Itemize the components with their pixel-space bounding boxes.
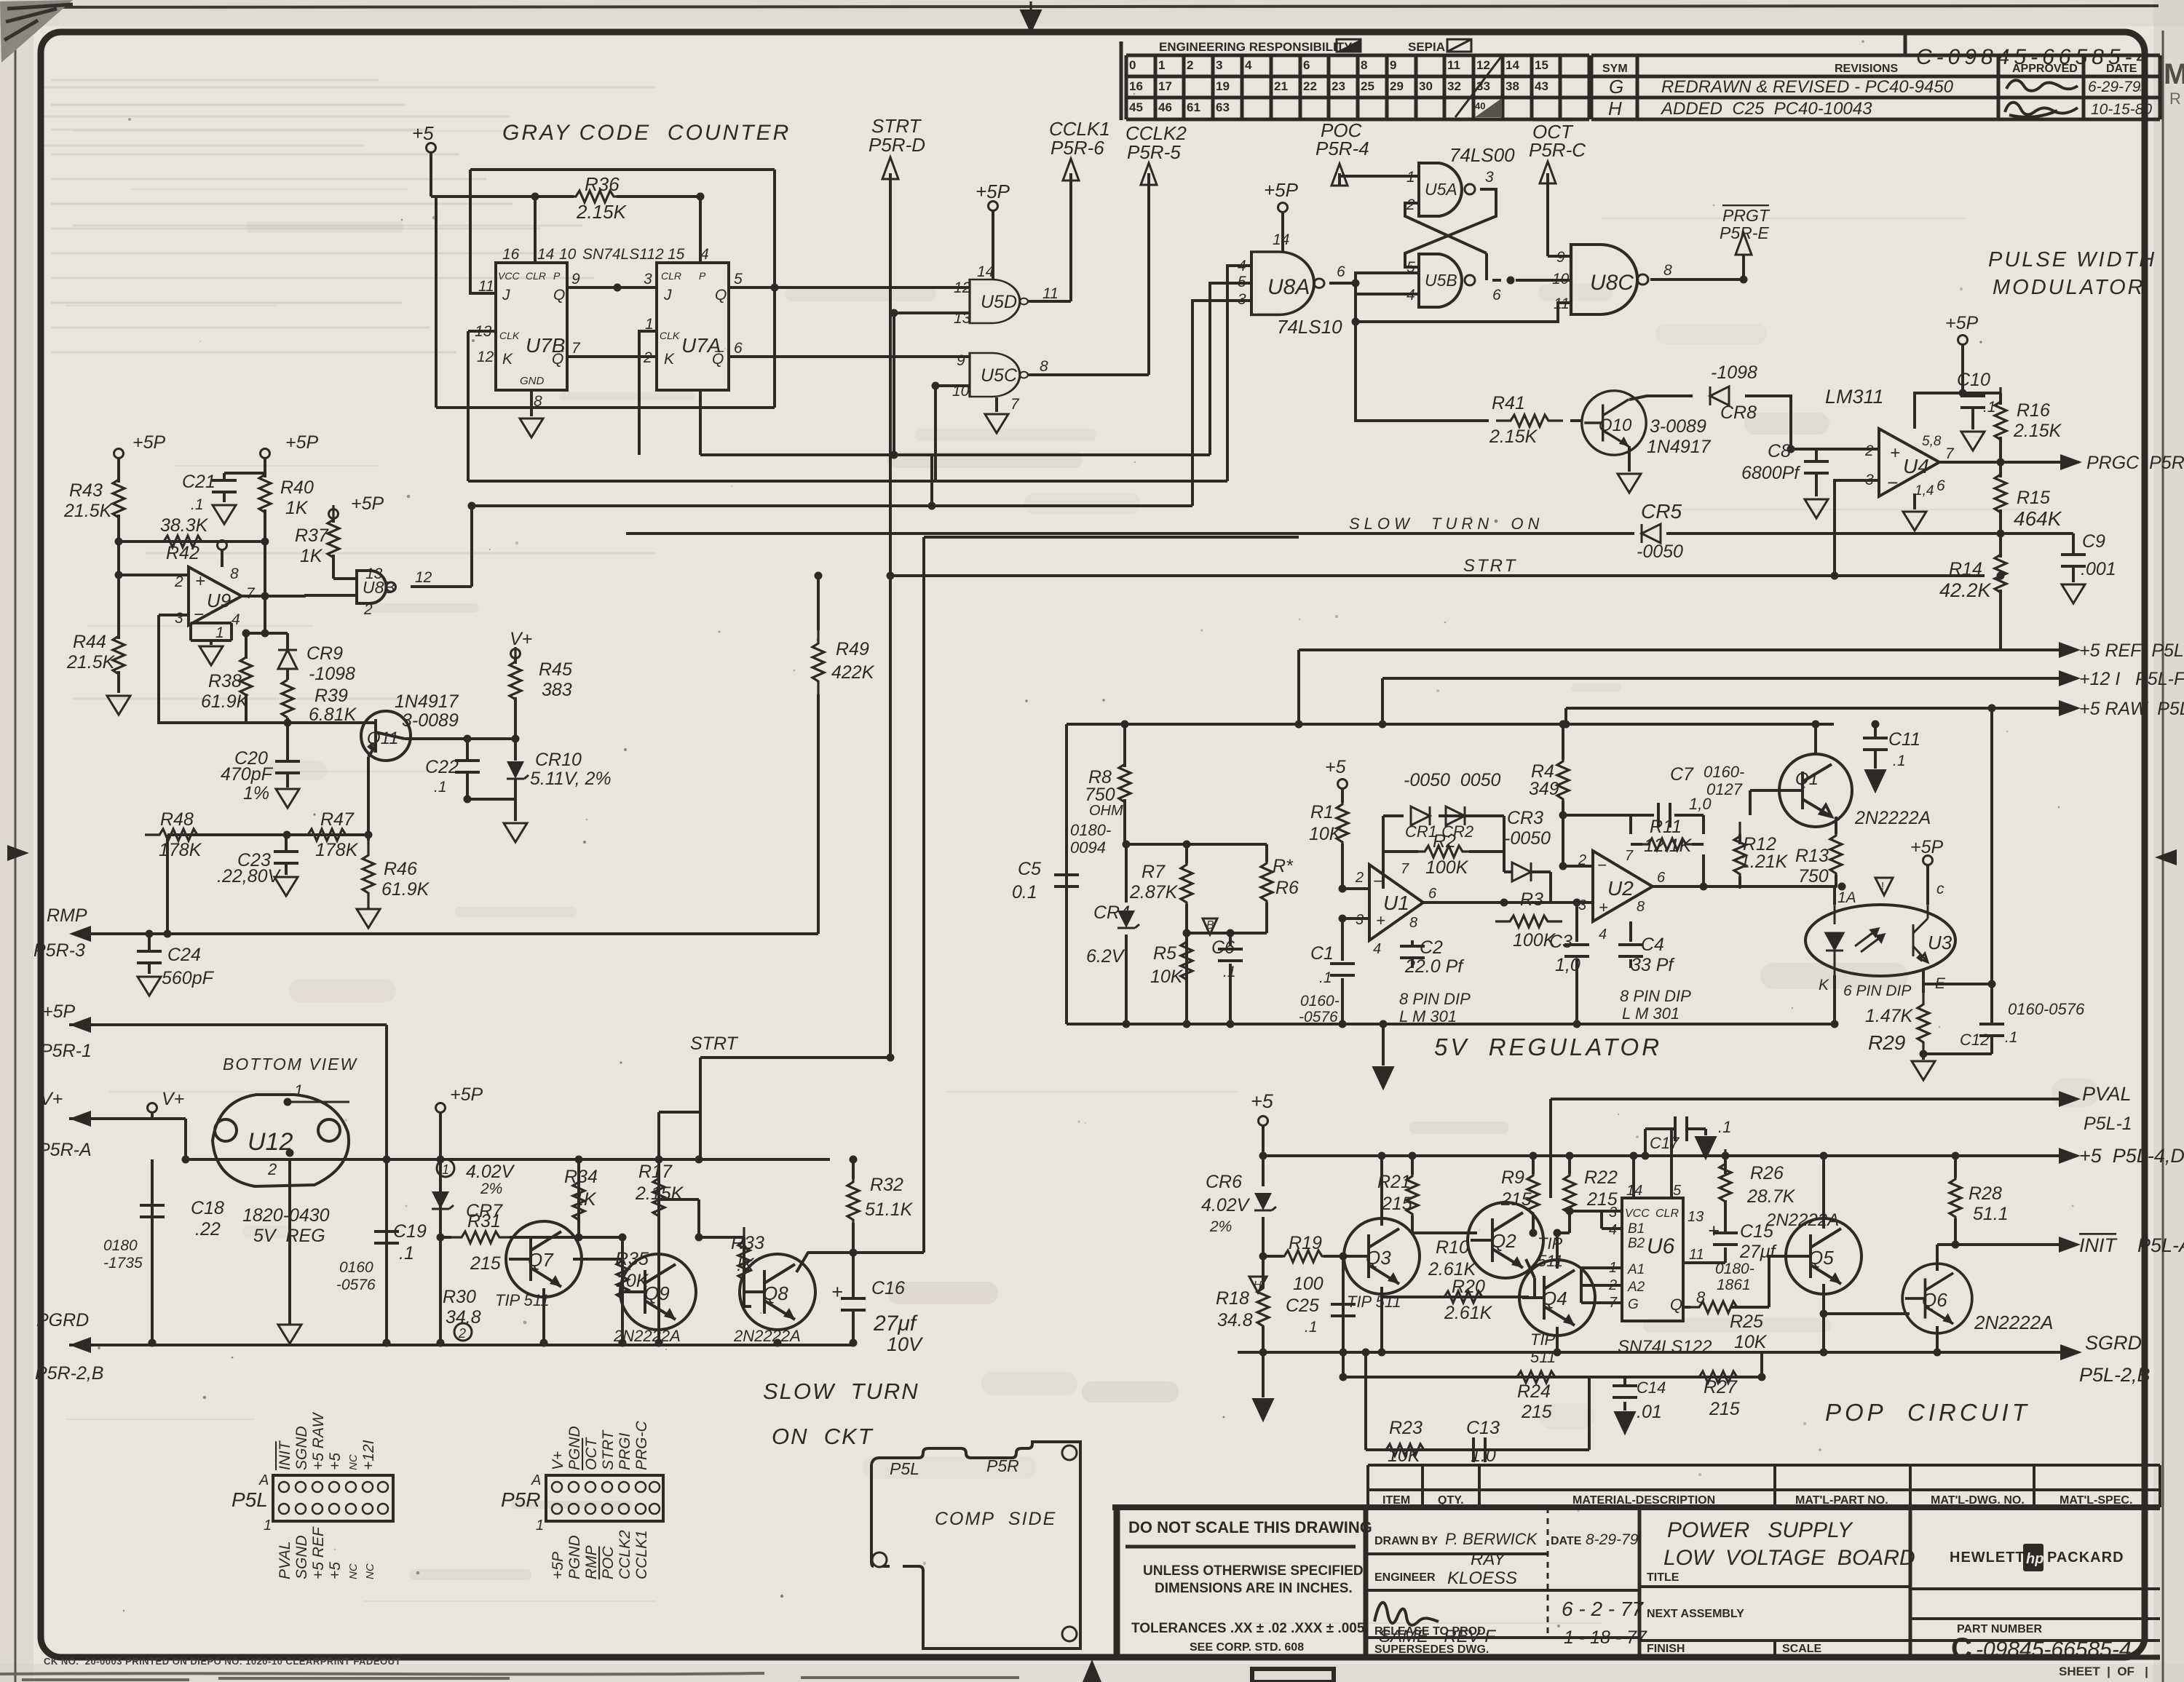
svg-text:3: 3 <box>1216 58 1222 72</box>
svg-text:+5P: +5P <box>976 181 1010 202</box>
svg-text:11: 11 <box>1447 58 1460 72</box>
svg-text:+5 REF: +5 REF <box>310 1526 327 1579</box>
svg-text:A: A <box>258 1472 269 1488</box>
svg-text:6: 6 <box>1936 477 1945 494</box>
svg-text:PULSE WIDTH: PULSE WIDTH <box>1988 248 2156 271</box>
svg-text:Q8: Q8 <box>763 1282 788 1304</box>
svg-text:DIMENSIONS ARE IN INCHES.: DIMENSIONS ARE IN INCHES. <box>1155 1581 1353 1596</box>
svg-text:+12 I P5L-F: +12 I P5L-F <box>2079 669 2184 689</box>
svg-text:C5: C5 <box>1018 859 1041 879</box>
svg-text:+5P: +5P <box>1264 179 1299 201</box>
svg-text:5V REG: 5V REG <box>253 1226 325 1246</box>
svg-text:CR8: CR8 <box>1720 402 1757 423</box>
svg-text:-0050: -0050 <box>1504 828 1551 849</box>
svg-text:-0576: -0576 <box>336 1277 376 1293</box>
svg-text:PRGI: PRGI <box>617 1432 633 1470</box>
svg-text:4: 4 <box>1373 941 1381 957</box>
svg-text:+12I: +12I <box>360 1440 377 1470</box>
svg-text:12: 12 <box>477 349 494 365</box>
svg-text:P5R: P5R <box>501 1488 540 1511</box>
svg-text:U6: U6 <box>1647 1234 1675 1258</box>
svg-text:R1: R1 <box>1310 802 1334 822</box>
svg-text:3: 3 <box>1485 169 1494 186</box>
svg-text:R44: R44 <box>73 632 106 652</box>
svg-text:G: G <box>1628 1297 1639 1312</box>
svg-text:CR4: CR4 <box>1093 903 1130 923</box>
svg-text:R25: R25 <box>1730 1312 1763 1332</box>
svg-text:R15: R15 <box>2017 488 2050 508</box>
svg-text:23: 23 <box>1332 79 1345 93</box>
svg-text:C21: C21 <box>182 472 215 492</box>
svg-text:C14: C14 <box>1637 1378 1666 1397</box>
svg-text:P5R-5: P5R-5 <box>1127 141 1181 163</box>
svg-text:REVISIONS: REVISIONS <box>1835 63 1898 75</box>
svg-text:4: 4 <box>1406 287 1415 304</box>
svg-text:5: 5 <box>1673 1183 1682 1199</box>
svg-text:U4: U4 <box>1903 455 1929 477</box>
svg-text:14: 14 <box>977 263 994 280</box>
svg-text:CLK: CLK <box>499 330 520 341</box>
svg-text:PRGT: PRGT <box>1722 206 1770 225</box>
svg-text:C9: C9 <box>2082 531 2105 552</box>
svg-text:G: G <box>1609 76 1623 98</box>
svg-text:+: + <box>1376 911 1385 929</box>
svg-text:32: 32 <box>1447 79 1461 93</box>
svg-text:2N2222A: 2N2222A <box>1854 808 1931 828</box>
svg-text:C7: C7 <box>1670 764 1694 785</box>
svg-text:2: 2 <box>1578 852 1586 868</box>
svg-text:11: 11 <box>1689 1247 1704 1263</box>
svg-text:4: 4 <box>1245 58 1252 72</box>
svg-text:0180-: 0180- <box>1070 821 1111 839</box>
svg-text:10K: 10K <box>1388 1445 1421 1466</box>
svg-text:33 Pf: 33 Pf <box>1631 955 1675 975</box>
svg-text:+5: +5 <box>1251 1090 1274 1112</box>
svg-text:1N4917: 1N4917 <box>1647 437 1712 457</box>
svg-text:ON CKT: ON CKT <box>772 1424 874 1449</box>
svg-text:0094: 0094 <box>1070 838 1106 857</box>
svg-text:TIP: TIP <box>1538 1234 1563 1253</box>
svg-text:P: P <box>553 270 561 282</box>
svg-text:TOLERANCES .XX ± .02 .XXX ± .0: TOLERANCES .XX ± .02 .XXX ± .005 <box>1131 1621 1365 1636</box>
svg-text:8: 8 <box>230 566 239 582</box>
svg-text:R2: R2 <box>1433 831 1456 852</box>
svg-text:6800Pf: 6800Pf <box>1741 463 1801 483</box>
svg-text:215: 215 <box>1500 1189 1532 1210</box>
svg-text:.1: .1 <box>1319 969 1332 986</box>
svg-text:DRAWN BY: DRAWN BY <box>1374 1535 1438 1547</box>
svg-text:DO NOT SCALE THIS DRAWING: DO NOT SCALE THIS DRAWING <box>1128 1518 1372 1536</box>
svg-text:7: 7 <box>1010 396 1020 413</box>
svg-text:P. BERWICK: P. BERWICK <box>1445 1530 1538 1548</box>
svg-text:U12: U12 <box>248 1128 293 1156</box>
svg-text:61.9K: 61.9K <box>201 691 250 712</box>
svg-text:1,0: 1,0 <box>1555 955 1580 975</box>
svg-text:POWER SUPPLY: POWER SUPPLY <box>1667 1518 1853 1542</box>
svg-text:17: 17 <box>1158 79 1172 93</box>
svg-text:K: K <box>502 351 513 368</box>
svg-text:15: 15 <box>668 246 685 263</box>
svg-text:R37: R37 <box>295 525 329 546</box>
svg-text:SN74LS112: SN74LS112 <box>582 246 664 263</box>
svg-text:C: C <box>1951 1633 1972 1665</box>
svg-text:.1: .1 <box>434 779 447 796</box>
svg-text:21.5K: 21.5K <box>63 501 113 521</box>
svg-text:61: 61 <box>1187 100 1200 114</box>
svg-text:SEE CORP. STD. 608: SEE CORP. STD. 608 <box>1190 1641 1304 1654</box>
svg-text:C25: C25 <box>1286 1296 1319 1316</box>
svg-text:14: 14 <box>1626 1183 1642 1199</box>
svg-text:2.15K: 2.15K <box>576 201 628 223</box>
svg-text:NEXT ASSEMBLY: NEXT ASSEMBLY <box>1647 1608 1744 1620</box>
svg-text:U8B: U8B <box>363 578 395 597</box>
svg-text:R42: R42 <box>166 543 199 563</box>
svg-text:R48: R48 <box>160 809 194 830</box>
svg-text:12.1K: 12.1K <box>1644 836 1693 856</box>
svg-text:R17: R17 <box>638 1162 673 1182</box>
svg-text:2.15K: 2.15K <box>1489 427 1538 447</box>
svg-text:OCT: OCT <box>583 1437 600 1471</box>
svg-text:R14: R14 <box>1949 559 1982 579</box>
svg-text:+5 P5L-4,D: +5 P5L-4,D <box>2079 1145 2184 1167</box>
svg-text:2.61K: 2.61K <box>1444 1303 1493 1323</box>
svg-text:.1: .1 <box>399 1243 414 1264</box>
svg-text:0180: 0180 <box>103 1237 138 1254</box>
svg-text:-0050: -0050 <box>1637 542 1683 562</box>
svg-text:5.11V, 2%: 5.11V, 2% <box>530 769 612 789</box>
svg-text:-1098: -1098 <box>1711 362 1757 383</box>
svg-text:CLR: CLR <box>526 270 546 282</box>
svg-text:61.9K: 61.9K <box>381 879 430 900</box>
svg-text:7: 7 <box>246 585 256 602</box>
svg-text:10V: 10V <box>887 1333 924 1355</box>
svg-text:R21: R21 <box>1377 1172 1411 1192</box>
svg-text:PRGC P5R-F: PRGC P5R-F <box>2086 453 2184 473</box>
svg-text:INIT: INIT <box>277 1440 293 1470</box>
svg-text:CLR: CLR <box>1655 1207 1679 1220</box>
svg-text:R13: R13 <box>1795 846 1829 866</box>
svg-text:1: 1 <box>1609 1260 1617 1276</box>
svg-text:13: 13 <box>954 310 971 327</box>
svg-text:R46: R46 <box>384 859 417 879</box>
svg-text:2%: 2% <box>1209 1218 1232 1235</box>
svg-text:P: P <box>699 270 706 282</box>
svg-text:P5L-A: P5L-A <box>2137 1234 2184 1256</box>
svg-text:215: 215 <box>1709 1399 1740 1419</box>
svg-text:C11: C11 <box>1888 729 1920 750</box>
svg-text:6: 6 <box>1303 58 1310 72</box>
svg-text:RMP: RMP <box>47 905 87 926</box>
svg-text:C-09845-66585-4: C-09845-66585-4 <box>1916 45 2153 69</box>
svg-text:8 PIN DIP: 8 PIN DIP <box>1399 990 1471 1008</box>
svg-text:P5R-A: P5R-A <box>38 1140 92 1160</box>
svg-text:+5P: +5P <box>132 432 166 453</box>
svg-text:P5L: P5L <box>890 1459 919 1478</box>
svg-text:P5L: P5L <box>232 1488 268 1511</box>
svg-text:8: 8 <box>1637 899 1645 915</box>
svg-text:4: 4 <box>1238 258 1246 274</box>
svg-text:C17: C17 <box>1650 1134 1679 1152</box>
svg-text:6: 6 <box>1337 263 1345 280</box>
svg-text:CR5: CR5 <box>1641 500 1682 523</box>
svg-text:1820-0430: 1820-0430 <box>242 1205 330 1226</box>
svg-text:8 PIN DIP: 8 PIN DIP <box>1620 987 1691 1005</box>
svg-text:POP CIRCUIT: POP CIRCUIT <box>1825 1399 2030 1426</box>
svg-text:SGND: SGND <box>293 1426 310 1470</box>
svg-text:SN74LS122: SN74LS122 <box>1618 1337 1712 1357</box>
svg-text:NC: NC <box>347 1563 360 1579</box>
svg-text:511: 511 <box>1538 1252 1563 1270</box>
svg-text:0.1: 0.1 <box>1012 882 1037 903</box>
svg-text:4: 4 <box>1609 1222 1617 1238</box>
svg-text:SCALE: SCALE <box>1782 1643 1822 1655</box>
svg-text:R28: R28 <box>1969 1183 2002 1204</box>
svg-text:0160-0576: 0160-0576 <box>2008 1000 2085 1018</box>
svg-text:5V REGULATOR: 5V REGULATOR <box>1434 1034 1662 1060</box>
svg-text:22: 22 <box>1303 79 1317 93</box>
svg-text:.1: .1 <box>2005 1029 2018 1046</box>
svg-text:12: 12 <box>1476 58 1490 72</box>
svg-text:6-29-79: 6-29-79 <box>2088 79 2141 95</box>
svg-text:2: 2 <box>1406 197 1415 213</box>
svg-text:C6: C6 <box>1211 937 1235 958</box>
svg-text:349: 349 <box>1529 779 1559 799</box>
svg-text:3: 3 <box>1356 912 1364 928</box>
svg-text:R41: R41 <box>1492 393 1525 413</box>
svg-text:+: + <box>1599 898 1608 916</box>
svg-text:R45: R45 <box>539 659 572 680</box>
svg-text:+5P: +5P <box>550 1552 566 1579</box>
svg-text:178K: 178K <box>159 840 202 860</box>
svg-text:U5A: U5A <box>1425 180 1457 199</box>
svg-text:1K: 1K <box>300 546 323 566</box>
svg-text:560pF: 560pF <box>162 968 215 988</box>
svg-text:R9: R9 <box>1501 1167 1524 1188</box>
svg-text:C1: C1 <box>1310 943 1334 964</box>
svg-text:Q5: Q5 <box>1808 1247 1834 1269</box>
svg-text:1: 1 <box>264 1518 272 1534</box>
svg-text:9: 9 <box>1390 58 1396 72</box>
svg-text:POC: POC <box>600 1546 617 1579</box>
svg-text:INIT: INIT <box>2079 1234 2118 1256</box>
svg-text:R30: R30 <box>443 1287 476 1307</box>
svg-text:R49: R49 <box>836 639 869 659</box>
svg-text:8: 8 <box>1040 358 1048 375</box>
svg-text:L M 301: L M 301 <box>1622 1004 1679 1023</box>
svg-text:R43: R43 <box>69 480 103 501</box>
svg-text:SAME - REV F: SAME - REV F <box>1379 1627 1496 1646</box>
svg-text:5: 5 <box>734 271 743 287</box>
svg-text:51.1: 51.1 <box>1973 1204 2009 1224</box>
svg-text:2: 2 <box>458 1326 466 1341</box>
svg-text:R10: R10 <box>1436 1237 1469 1258</box>
svg-text:30: 30 <box>1419 79 1433 93</box>
svg-text:LM311: LM311 <box>1825 386 1884 408</box>
svg-text:TITLE: TITLE <box>1647 1571 1679 1584</box>
svg-text:B: B <box>1206 919 1214 932</box>
svg-text:A2: A2 <box>1627 1280 1645 1295</box>
svg-text:SYM: SYM <box>1602 63 1628 75</box>
svg-text:CLK: CLK <box>660 330 680 341</box>
svg-text:R31: R31 <box>467 1211 501 1231</box>
svg-text:GRAY CODE COUNTER: GRAY CODE COUNTER <box>502 121 791 145</box>
svg-text:H: H <box>1608 98 1622 119</box>
svg-text:.1: .1 <box>1893 753 1906 769</box>
svg-text:10K: 10K <box>1734 1332 1768 1352</box>
svg-text:14: 14 <box>1506 58 1519 72</box>
svg-text:16: 16 <box>1129 79 1143 93</box>
svg-text:+5P: +5P <box>450 1084 483 1105</box>
svg-text:0160-: 0160- <box>1704 763 1744 781</box>
svg-text:1%: 1% <box>243 783 269 804</box>
svg-text:SEPIA: SEPIA <box>1408 40 1445 54</box>
svg-text:3-0089: 3-0089 <box>1650 416 1706 437</box>
svg-text:+5: +5 <box>412 122 434 144</box>
svg-text:PACKARD: PACKARD <box>2047 1550 2124 1566</box>
svg-text:PVAL: PVAL <box>2082 1083 2132 1105</box>
svg-text:6: 6 <box>1492 287 1501 304</box>
svg-text:2: 2 <box>643 349 652 366</box>
svg-text:215: 215 <box>1521 1402 1552 1422</box>
svg-text:R29: R29 <box>1868 1031 1905 1054</box>
svg-text:Q: Q <box>1670 1296 1682 1314</box>
svg-text:PVAL: PVAL <box>277 1541 293 1579</box>
svg-text:750: 750 <box>1085 785 1115 805</box>
svg-text:BOTTOM VIEW: BOTTOM VIEW <box>223 1055 357 1074</box>
svg-text:10-15-80: 10-15-80 <box>2091 101 2152 118</box>
svg-text:ENGINEER: ENGINEER <box>1374 1571 1436 1584</box>
svg-text:PGRD: PGRD <box>36 1310 89 1330</box>
svg-text:UNLESS OTHERWISE SPECIFIED,: UNLESS OTHERWISE SPECIFIED, <box>1143 1563 1367 1579</box>
svg-text:+5P: +5P <box>1945 313 1979 333</box>
svg-text:Q3: Q3 <box>1366 1247 1391 1269</box>
svg-text:KLOESS: KLOESS <box>1447 1568 1517 1588</box>
svg-text:8: 8 <box>1663 262 1672 279</box>
svg-text:COMP SIDE: COMP SIDE <box>935 1509 1056 1529</box>
svg-text:6: 6 <box>1657 870 1666 886</box>
svg-text:U5D: U5D <box>981 292 1017 312</box>
svg-text:11: 11 <box>1042 285 1059 302</box>
svg-text:R26: R26 <box>1750 1163 1784 1183</box>
svg-text:R7: R7 <box>1142 862 1166 882</box>
svg-text:R20: R20 <box>1452 1277 1485 1297</box>
svg-text:R47: R47 <box>320 809 355 830</box>
svg-text:14: 14 <box>1273 231 1289 248</box>
svg-text:SLOW TURN: SLOW TURN <box>763 1378 919 1404</box>
svg-text:LOW VOLTAGE BOARD: LOW VOLTAGE BOARD <box>1663 1546 1915 1570</box>
svg-text:U3: U3 <box>1928 932 1952 953</box>
svg-text:J: J <box>502 287 510 304</box>
svg-text:2: 2 <box>174 574 183 590</box>
svg-text:P5L-1: P5L-1 <box>2084 1114 2132 1134</box>
svg-text:R: R <box>2169 90 2181 108</box>
svg-text:U1: U1 <box>1383 892 1409 914</box>
svg-text:1A: 1A <box>1837 889 1856 906</box>
svg-text:1: 1 <box>442 1162 449 1177</box>
svg-text:6.2V: 6.2V <box>1086 946 1125 967</box>
svg-text:9: 9 <box>957 352 965 369</box>
svg-text:+5 RAW P5L-C: +5 RAW P5L-C <box>2079 699 2184 719</box>
svg-text:46: 46 <box>1158 100 1172 114</box>
svg-text:OHM: OHM <box>1089 803 1123 819</box>
svg-text:7: 7 <box>571 340 581 357</box>
svg-text:16: 16 <box>502 246 520 263</box>
svg-text:C13: C13 <box>1466 1418 1500 1438</box>
svg-text:43: 43 <box>1535 79 1548 93</box>
svg-text:+5 REF P5L-3: +5 REF P5L-3 <box>2079 640 2184 661</box>
svg-text:R40: R40 <box>280 477 314 498</box>
svg-text:Q7: Q7 <box>528 1249 554 1271</box>
svg-text:8: 8 <box>534 393 542 410</box>
svg-text:74LS10: 74LS10 <box>1277 316 1342 338</box>
svg-text:4.02V: 4.02V <box>466 1162 515 1182</box>
svg-text:R22: R22 <box>1584 1167 1618 1188</box>
svg-text:8-29-79: 8-29-79 <box>1586 1531 1639 1548</box>
svg-text:3: 3 <box>1609 1205 1617 1221</box>
svg-text:.1: .1 <box>1983 399 1996 416</box>
svg-text:R36: R36 <box>585 173 620 195</box>
svg-text:CLR: CLR <box>661 270 681 282</box>
svg-text:22.0 Pf: 22.0 Pf <box>1404 956 1465 977</box>
svg-text:NC: NC <box>347 1454 360 1470</box>
svg-text:1 - 18 - 77: 1 - 18 - 77 <box>1564 1627 1647 1648</box>
svg-text:51.1K: 51.1K <box>865 1199 914 1220</box>
svg-text:R6: R6 <box>1275 878 1299 898</box>
svg-text:Q6: Q6 <box>1922 1289 1947 1311</box>
svg-text:7: 7 <box>1609 1295 1618 1311</box>
svg-text:33: 33 <box>1476 79 1490 93</box>
svg-text:P5R-D: P5R-D <box>869 134 925 156</box>
svg-text:!: ! <box>1881 880 1884 892</box>
svg-text:2: 2 <box>1608 1277 1617 1293</box>
svg-text:7: 7 <box>1945 445 1955 462</box>
svg-text:4: 4 <box>1599 927 1607 943</box>
svg-text:VCC: VCC <box>498 270 520 282</box>
svg-text:V+: V+ <box>510 629 532 649</box>
svg-text:A: A <box>531 1472 541 1488</box>
svg-text:U8A: U8A <box>1267 275 1310 299</box>
svg-text:10: 10 <box>952 383 970 400</box>
svg-text:34.8: 34.8 <box>1217 1310 1253 1330</box>
svg-text:Q1: Q1 <box>1795 769 1819 789</box>
svg-text:P5R-3: P5R-3 <box>33 940 85 961</box>
svg-text:SGRD: SGRD <box>2085 1332 2142 1354</box>
svg-text:750: 750 <box>1798 866 1829 886</box>
svg-text:100: 100 <box>1293 1274 1324 1294</box>
svg-text:R18: R18 <box>1216 1288 1249 1309</box>
svg-text:C24: C24 <box>167 945 201 965</box>
svg-text:+: + <box>195 571 205 591</box>
svg-text:5: 5 <box>1406 259 1415 276</box>
svg-text:Q10: Q10 <box>1599 416 1632 435</box>
svg-text:E: E <box>1935 975 1946 992</box>
svg-text:R23: R23 <box>1389 1418 1423 1438</box>
svg-text:HEWLETT: HEWLETT <box>1950 1550 2025 1566</box>
svg-text:1,4: 1,4 <box>1915 483 1934 499</box>
svg-text:3: 3 <box>1238 291 1246 308</box>
svg-text:-0050 0050: -0050 0050 <box>1404 770 1501 790</box>
svg-text:27μf: 27μf <box>1739 1242 1778 1262</box>
svg-text:1.47K: 1.47K <box>1865 1006 1914 1026</box>
svg-text:H: H <box>1254 1279 1262 1291</box>
svg-text:7: 7 <box>1401 861 1409 877</box>
svg-text:Q: Q <box>715 287 727 304</box>
svg-text:TIP: TIP <box>1530 1330 1556 1349</box>
svg-text:0160: 0160 <box>339 1259 373 1276</box>
svg-text:C16: C16 <box>871 1278 905 1298</box>
svg-text:6: 6 <box>1428 886 1437 902</box>
svg-text:CR3: CR3 <box>1507 808 1543 828</box>
